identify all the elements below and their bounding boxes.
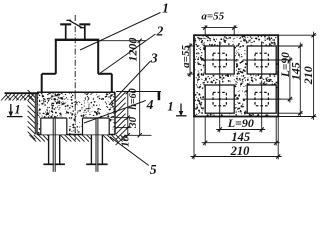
svg-text:a=55: a=55 [201,10,224,22]
svg-text:2: 2 [156,24,164,39]
svg-text:1: 1 [162,1,169,16]
svg-text:5: 5 [150,162,157,177]
svg-text:210: 210 [230,144,251,158]
svg-text:L=90: L=90 [227,116,254,130]
svg-text:a=55: a=55 [180,45,192,68]
svg-text:145: 145 [231,130,250,144]
svg-text:210: 210 [301,66,315,85]
svg-text:1200: 1200 [125,38,139,62]
svg-text:3: 3 [150,51,158,66]
svg-text:30: 30 [127,116,139,128]
svg-text:1: 1 [167,100,173,114]
svg-text:4: 4 [146,97,154,112]
svg-text:1: 1 [14,102,20,116]
